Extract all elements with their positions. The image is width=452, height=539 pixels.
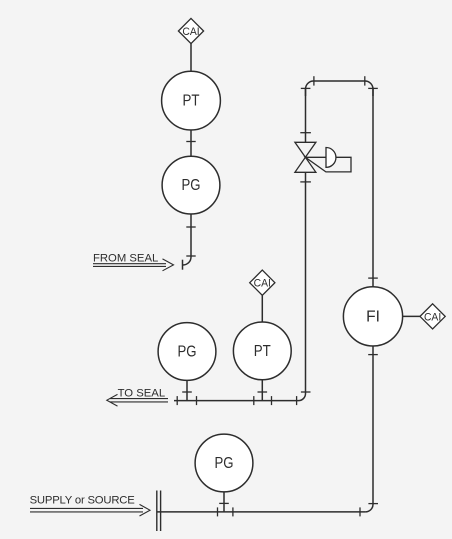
instrument bubble PG (middle): [158, 323, 216, 381]
svg-text:SUPPLY or SOURCE: SUPPLY or SOURCE: [30, 495, 136, 507]
tick on top header left: [313, 76, 315, 85]
tick on PT stem (middle): [258, 391, 268, 393]
tick on valve branch above lower elbow: [301, 391, 311, 393]
instrument bubble PG (bottom): [195, 434, 253, 492]
diamond CAI (top): [178, 18, 203, 43]
wire: supply source pipe: [158, 511, 366, 513]
tick on PG stem (bottom): [219, 502, 229, 504]
diamond CAI (middle): [250, 270, 275, 295]
pipe break double bars at supply: [157, 491, 161, 532]
instrument bubble PT (top chain): [162, 71, 221, 130]
wire: PT to PG (top chain): [190, 130, 192, 156]
arrow SUPPLY (double-line shaft, right tip): [30, 504, 150, 516]
wire: stem CAI diamond to PT (top chain): [190, 44, 192, 72]
svg-text:FROM SEAL: FROM SEAL: [93, 253, 158, 265]
diamond CAI (right): [420, 304, 445, 329]
tick below FI: [368, 354, 378, 356]
wire: top header pipe with elbows: [306, 81, 374, 96]
tick on supply line right of PG stem: [232, 507, 234, 516]
tick above seal hook: [186, 255, 195, 257]
tick on TO SEAL header right of PT stem: [271, 396, 273, 405]
wire: stem PG to header (middle): [186, 380, 188, 400]
wire: stem PG to supply line (bottom): [223, 492, 225, 512]
valve actuator dome: [326, 148, 336, 168]
tick between PT and PG top chain: [186, 141, 195, 143]
svg-text:CAI: CAI: [424, 311, 441, 323]
tick below PG top chain: [186, 226, 195, 228]
tick on right branch above supply elbow: [368, 503, 378, 505]
tick on valve branch below elbow: [301, 87, 311, 89]
wire: PG down to seal hook: [183, 214, 191, 265]
svg-text:PT: PT: [254, 343, 271, 360]
instrument bubble PT (middle): [233, 322, 291, 380]
control valve body (bowtie triangles): [295, 142, 316, 172]
tick on supply line before right elbow: [359, 507, 361, 516]
instrument bubble FI: [343, 287, 402, 346]
svg-text:PT: PT: [183, 93, 200, 110]
tick on top header right: [364, 76, 366, 85]
svg-text:CAI: CAI: [254, 278, 271, 290]
wire: right branch through FI down to supply elbow: [365, 89, 373, 512]
svg-text:TO SEAL: TO SEAL: [118, 387, 166, 399]
tick below valve: [300, 181, 311, 183]
wire: stem PT to header (middle): [261, 380, 263, 401]
tick above FI: [368, 277, 378, 279]
svg-text:PG: PG: [182, 177, 201, 194]
svg-text:PG: PG: [178, 343, 197, 360]
svg-text:PG: PG: [215, 455, 234, 472]
svg-text:FI: FI: [366, 308, 380, 325]
wire: FI to CAI connector: [403, 315, 421, 317]
arrow TO SEAL (double-line shaft, left tip): [107, 394, 168, 406]
tick on PG stem (middle): [182, 391, 192, 393]
instrument bubble PG (top chain): [162, 156, 220, 214]
arrow FROM SEAL (double-line shaft, right tip): [93, 259, 174, 271]
valve actuator body (cylinder with diagonal link): [305, 157, 351, 172]
tick above valve: [300, 132, 311, 134]
tick on TO SEAL header left of PT stem: [253, 396, 255, 405]
tick on TO SEAL header right of PG stem: [196, 396, 198, 405]
wire: TO SEAL header pipe: [174, 400, 299, 402]
wire: valve branch lower segment down to TO SEAL header elbow: [299, 172, 306, 400]
tick on TO SEAL header before elbow: [296, 396, 298, 405]
wire: hook end bar: [182, 260, 184, 270]
tick on supply line left of PG stem: [217, 507, 219, 516]
tick on right branch below elbow: [368, 87, 378, 89]
tick on TO SEAL header left end: [176, 396, 178, 405]
wire: stem CAI diamond to PT (middle): [261, 295, 263, 322]
wire: valve branch upper segment: [305, 89, 307, 142]
svg-text:CAI: CAI: [182, 26, 199, 38]
